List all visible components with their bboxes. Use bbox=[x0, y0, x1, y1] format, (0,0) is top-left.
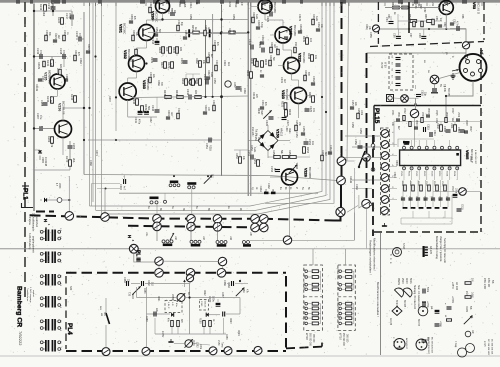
svg-text:gestrichelt: gestrichelt bbox=[35, 216, 38, 227]
W710 divider bbox=[338, 296, 355, 298]
capacitor C216 bbox=[51, 7, 56, 9]
coil L21 pins bbox=[169, 184, 172, 187]
svg-text:AB 178: AB 178 bbox=[429, 246, 432, 255]
svg-text:R522: R522 bbox=[423, 171, 425, 177]
svg-text:C151: C151 bbox=[247, 150, 250, 157]
wire C516 up bbox=[415, 85, 417, 89]
resistor R245 bbox=[165, 96, 172, 99]
svg-text:560 087: 560 087 bbox=[447, 88, 449, 97]
svg-text:950 090 000: 950 090 000 bbox=[342, 333, 344, 346]
svg-text:20: 20 bbox=[337, 301, 339, 303]
svg-text:470p: 470p bbox=[68, 13, 72, 19]
resistor R264 bbox=[185, 79, 188, 86]
screw PL3 bbox=[129, 244, 138, 253]
PL15 border bottom bbox=[374, 231, 481, 233]
svg-text:PL: PL bbox=[135, 250, 141, 256]
svg-text:BC238C: BC238C bbox=[123, 23, 127, 35]
switch S12 bbox=[358, 151, 365, 168]
PL4 top bus dash bbox=[66, 272, 286, 274]
IF bus wires right bbox=[347, 2, 349, 161]
legend pol cap bbox=[435, 310, 440, 313]
network W730 box bbox=[304, 265, 323, 330]
svg-text:100n: 100n bbox=[199, 344, 201, 350]
screw B2 bbox=[187, 222, 196, 231]
svg-text:BC 308,328,318: BC 308,328,318 bbox=[431, 337, 433, 354]
resistor R262 bbox=[199, 61, 202, 68]
resistor R244 bbox=[74, 96, 77, 103]
svg-text:100u: 100u bbox=[212, 296, 216, 302]
svg-text:S 517: S 517 bbox=[402, 243, 405, 250]
svg-text:R154: R154 bbox=[288, 150, 291, 156]
resistor R235 bbox=[312, 96, 315, 103]
svg-text:BC153: BC153 bbox=[417, 319, 419, 327]
svg-text:C210: C210 bbox=[234, 2, 237, 8]
svg-text:R56: R56 bbox=[417, 2, 420, 7]
svg-text:C228: C228 bbox=[257, 20, 260, 26]
wire base feeds bbox=[251, 6, 258, 8]
pin above DIN bbox=[464, 55, 467, 58]
transistor case TO92 bbox=[395, 288, 404, 297]
svg-text:C251: C251 bbox=[205, 143, 208, 149]
wire jack diagonal bbox=[439, 73, 460, 79]
polarized cap bar on rail 1 bbox=[188, 29, 190, 37]
svg-text:40: 40 bbox=[337, 275, 339, 277]
legend cap sym2 bbox=[423, 303, 425, 308]
svg-text:C547: C547 bbox=[445, 196, 447, 202]
svg-text:C215: C215 bbox=[184, 30, 187, 36]
svg-text:C533: C533 bbox=[441, 181, 443, 187]
shield bus x341 bold bbox=[341, 2, 343, 157]
transistor case round bbox=[418, 306, 428, 316]
svg-text:C501: C501 bbox=[391, 110, 393, 116]
wire y240 long bbox=[250, 239, 355, 241]
resistor R254 bbox=[193, 31, 200, 34]
wire rail x84 bbox=[83, 12, 85, 175]
capacitor C151 bbox=[251, 155, 253, 160]
svg-text:V226: V226 bbox=[304, 168, 308, 177]
capacitor C267 bbox=[40, 126, 42, 131]
svg-text:4n7: 4n7 bbox=[123, 186, 126, 191]
screw D1 bbox=[155, 269, 164, 278]
filter caps bbox=[396, 58, 401, 60]
capacitor under jack bbox=[432, 89, 437, 91]
svg-text:W710: W710 bbox=[339, 333, 343, 340]
svg-text:R161: R161 bbox=[259, 186, 262, 192]
screw H8 bbox=[283, 236, 291, 244]
PL15 border right bbox=[480, 48, 482, 232]
board border dash-dot left bbox=[24, 2, 26, 298]
svg-text:C150: C150 bbox=[254, 135, 257, 141]
svg-text:400V: 400V bbox=[405, 278, 408, 284]
svg-text:R153: R153 bbox=[306, 147, 309, 154]
svg-text:V220: V220 bbox=[269, 2, 273, 11]
capacitor C224 bbox=[251, 45, 253, 50]
svg-text:C163: C163 bbox=[355, 184, 358, 190]
svg-text:V223: V223 bbox=[281, 90, 285, 99]
legend resistor 05W bbox=[465, 296, 471, 299]
svg-text:R249: R249 bbox=[167, 110, 170, 116]
junction screw top bbox=[186, 275, 193, 282]
svg-text:DC 308 328 318: DC 308 328 318 bbox=[491, 339, 493, 355]
wire top row out bbox=[131, 283, 140, 285]
svg-text:40: 40 bbox=[337, 287, 339, 289]
tuning arrow bbox=[170, 233, 174, 240]
screw A4 bbox=[187, 215, 196, 224]
wire rail x34 bbox=[33, 4, 35, 211]
svg-text:R533: R533 bbox=[433, 181, 435, 187]
wire L32 drop bbox=[191, 189, 193, 215]
resistor R238 bbox=[136, 99, 139, 106]
svg-text:C161: C161 bbox=[329, 145, 332, 151]
svg-text:C157: C157 bbox=[351, 100, 354, 106]
osc box border bottom bbox=[370, 42, 484, 47]
svg-text:4n7: 4n7 bbox=[283, 79, 286, 84]
ground near connector bbox=[451, 73, 456, 79]
screw B1 bbox=[153, 222, 162, 231]
svg-text:S21: S21 bbox=[103, 312, 105, 317]
svg-text:C219: C219 bbox=[223, 60, 226, 66]
svg-text:C544: C544 bbox=[423, 196, 425, 202]
svg-text:R239: R239 bbox=[144, 104, 147, 111]
wire V53 emitter bbox=[445, 15, 447, 30]
transistor V226 bbox=[282, 169, 298, 185]
svg-text:R501: R501 bbox=[397, 112, 399, 118]
svg-text:R235: R235 bbox=[130, 14, 133, 20]
svg-text:R262: R262 bbox=[195, 58, 198, 64]
switch bus B bold dash bbox=[128, 226, 263, 228]
capacitor C180 bbox=[216, 303, 221, 306]
svg-text:C286: C286 bbox=[143, 288, 145, 294]
pin column wires bbox=[345, 135, 381, 137]
wire h334 bbox=[155, 333, 226, 335]
svg-text:L51: L51 bbox=[431, 2, 434, 7]
svg-text:R291: R291 bbox=[157, 296, 159, 302]
pot R189 bbox=[185, 340, 193, 348]
svg-text:C510: C510 bbox=[393, 172, 396, 178]
svg-text:R271: R271 bbox=[95, 150, 98, 156]
svg-text:20: 20 bbox=[303, 301, 305, 303]
nested wires PL1 right bbox=[92, 183, 121, 185]
svg-text:C158: C158 bbox=[351, 122, 354, 128]
svg-text:R234: R234 bbox=[288, 109, 291, 116]
screw A7 bbox=[260, 215, 269, 224]
svg-text:470u: 470u bbox=[138, 119, 140, 125]
wire row y97 bbox=[132, 96, 248, 98]
svg-text:1,8L,C: 1,8L,C bbox=[167, 302, 169, 309]
svg-text:C248: C248 bbox=[119, 184, 122, 190]
svg-text:R54: R54 bbox=[408, 14, 411, 19]
svg-text:L501: L501 bbox=[450, 123, 453, 129]
svg-text:1 GrO eingangs: 1 GrO eingangs bbox=[29, 287, 32, 303]
transistor V230 bbox=[156, 0, 170, 13]
svg-text:C289: C289 bbox=[225, 334, 227, 340]
wire rail x205 bbox=[205, 20, 207, 97]
svg-text:R159: R159 bbox=[359, 128, 362, 134]
fold crease upper bbox=[0, 248, 500, 250]
svg-text:R259: R259 bbox=[232, 14, 235, 20]
svg-text:R233: R233 bbox=[246, 70, 249, 77]
capacitor C225 bbox=[305, 109, 310, 111]
PL4 bottom bus dash bbox=[66, 350, 286, 352]
wire lower left bbox=[34, 169, 70, 171]
screw shield end bbox=[362, 199, 371, 208]
trimmer R240 bbox=[263, 110, 271, 118]
wire V222 to V223 bbox=[291, 74, 293, 81]
svg-text:festk: festk bbox=[253, 147, 256, 153]
wire nest 3 bbox=[102, 2, 331, 214]
resistor R56 bbox=[427, 20, 434, 23]
IC pin wires up bbox=[403, 140, 405, 147]
resistor R246 bbox=[177, 96, 184, 99]
svg-text:R502: R502 bbox=[436, 123, 439, 129]
shield bus segment 3 bbox=[340, 185, 342, 208]
svg-text:R264: R264 bbox=[181, 78, 184, 85]
svg-text:950 080 000: 950 080 000 bbox=[309, 333, 311, 346]
svg-text:C282: C282 bbox=[196, 342, 198, 348]
svg-text:R156: R156 bbox=[295, 163, 298, 170]
svg-text:250V: 250V bbox=[401, 278, 404, 284]
cap C518 bbox=[453, 194, 458, 197]
transistor V231 bbox=[139, 25, 155, 41]
legend resistor 1W bbox=[465, 282, 471, 285]
ground mid bbox=[404, 141, 409, 144]
svg-text:charge max. / potencia: charge max. / potencia bbox=[439, 236, 442, 262]
svg-text:C244: C244 bbox=[186, 89, 189, 96]
wire V230 leads bbox=[162, 13, 164, 20]
screw A1 bbox=[65, 212, 74, 221]
svg-text:40: 40 bbox=[303, 282, 305, 284]
screw E5 bbox=[254, 346, 262, 354]
svg-text:V150: V150 bbox=[276, 129, 280, 138]
capacitor C244 bbox=[189, 95, 191, 100]
svg-text:AC184,187: AC184,187 bbox=[405, 338, 408, 350]
capacitor C285L bbox=[154, 312, 156, 317]
svg-text:150: 150 bbox=[294, 42, 297, 47]
resistor R239b bbox=[306, 38, 309, 45]
svg-text:Bamberg CR: Bamberg CR bbox=[15, 286, 22, 327]
wire V236 emitter bbox=[62, 138, 64, 156]
svg-text:45kHz: 45kHz bbox=[397, 278, 400, 286]
shield bus segment 2 bbox=[341, 166, 343, 176]
svg-text:C180: C180 bbox=[208, 296, 212, 303]
wire bundle x116 bbox=[115, 3, 117, 131]
IC pin wires down bbox=[403, 166, 405, 180]
svg-text:C521: C521 bbox=[400, 171, 402, 177]
junction dots misc bbox=[88, 107, 90, 109]
resistor R187 bbox=[177, 321, 180, 327]
svg-text:C218: C218 bbox=[151, 38, 154, 45]
wire mid links bbox=[398, 20, 410, 22]
svg-text:R220: R220 bbox=[170, 8, 173, 14]
resistor R151 bbox=[257, 160, 260, 167]
wire V235 emitter bbox=[57, 89, 59, 96]
network W710 box bbox=[338, 265, 355, 330]
svg-text:C223: C223 bbox=[203, 74, 206, 81]
osc box border right bbox=[483, 2, 485, 40]
wire pin to DIN bbox=[465, 58, 467, 61]
resistor R227 bbox=[164, 62, 167, 69]
svg-text:560: 560 bbox=[147, 106, 150, 111]
wire L31 drop bbox=[156, 204, 158, 215]
wire screw to DIN bbox=[465, 49, 467, 55]
capacitor C227 bbox=[282, 118, 287, 120]
svg-text:R503: R503 bbox=[415, 120, 417, 126]
wire nest 4 bbox=[265, 2, 334, 203]
PL4 border left dash bbox=[65, 276, 67, 349]
corner mark bbox=[321, 343, 323, 347]
trim cap C515 bbox=[424, 127, 426, 132]
svg-text:47n: 47n bbox=[312, 108, 315, 113]
transformer T2 bbox=[40, 252, 60, 264]
svg-text:R184: R184 bbox=[242, 287, 245, 293]
trimmer R156 bbox=[289, 165, 297, 173]
svg-text:R521: R521 bbox=[408, 171, 410, 177]
jack X1 bbox=[401, 95, 409, 103]
svg-text:C513: C513 bbox=[457, 127, 460, 133]
capacitor C222 bbox=[262, 48, 264, 53]
svg-text:R269: R269 bbox=[47, 136, 51, 143]
svg-text:3 dB Anhebung: 3 dB Anhebung bbox=[28, 233, 31, 250]
resistor R230 bbox=[254, 59, 257, 66]
diode V265 bbox=[38, 150, 42, 153]
resistor R52 bbox=[402, 6, 409, 9]
resistor R250 bbox=[239, 157, 242, 164]
wire top cluster bbox=[440, 122, 442, 125]
transformer T4 bbox=[40, 296, 60, 308]
svg-text:R227: R227 bbox=[160, 62, 163, 69]
svg-text:C264: C264 bbox=[40, 100, 44, 107]
svg-text:40: 40 bbox=[337, 282, 339, 284]
divider dash x373 bbox=[372, 135, 374, 236]
capacitor C252 bbox=[236, 87, 241, 89]
resistor R257 bbox=[229, 31, 236, 34]
svg-text:C288: C288 bbox=[145, 316, 147, 322]
trim arrow S11 bbox=[204, 175, 212, 183]
arrow into connector bbox=[452, 70, 459, 72]
svg-text:R211: R211 bbox=[228, 2, 231, 8]
svg-text:4 049: 4 049 bbox=[443, 86, 445, 92]
resistor R269 bbox=[51, 137, 54, 144]
svg-text:T20: T20 bbox=[128, 292, 131, 297]
switch S21 bbox=[106, 313, 110, 324]
svg-text:BC163 D: BC163 D bbox=[477, 2, 481, 15]
capacitor C56 bbox=[396, 36, 401, 38]
svg-text:C217b: C217b bbox=[298, 14, 301, 22]
screw D3 bbox=[217, 269, 226, 278]
misc component marks left strip bbox=[45, 35, 48, 41]
decoder resistor row bbox=[404, 185, 407, 191]
svg-text:R258: R258 bbox=[189, 14, 192, 20]
svg-text:R509: R509 bbox=[395, 160, 398, 166]
screw contact S-knob bbox=[363, 154, 371, 162]
svg-text:C162: C162 bbox=[267, 183, 270, 189]
screw contact J1 bbox=[337, 157, 346, 166]
legend pot bbox=[464, 316, 472, 324]
svg-text:C153: C153 bbox=[270, 166, 273, 173]
svg-text:R508: R508 bbox=[465, 150, 467, 156]
screw E4 bbox=[224, 347, 232, 355]
svg-text:C216: C216 bbox=[47, 3, 51, 10]
svg-text:R53: R53 bbox=[387, 14, 390, 19]
wire y188 stub bbox=[352, 188, 372, 190]
diode V283 bbox=[206, 313, 209, 317]
capacitor C242 bbox=[144, 111, 149, 114]
bottom bus dash right bbox=[286, 347, 322, 349]
svg-text:S22: S22 bbox=[69, 286, 72, 291]
wire row y157 bbox=[268, 156, 274, 158]
svg-text:R266: R266 bbox=[157, 80, 160, 86]
svg-text:R256: R256 bbox=[228, 28, 231, 34]
coil wires bbox=[156, 223, 158, 241]
svg-text:BC238C: BC238C bbox=[155, 11, 159, 23]
screw B5 bbox=[260, 223, 269, 232]
PL1 border dash stub bbox=[36, 211, 54, 213]
svg-text:C268: C268 bbox=[89, 160, 92, 166]
coil L44 core bbox=[243, 244, 251, 247]
wire exit bottom bbox=[414, 207, 416, 241]
svg-text:22n: 22n bbox=[127, 279, 130, 284]
svg-text:H: H bbox=[127, 235, 132, 238]
screw B3 bbox=[213, 223, 222, 232]
junction to bus bbox=[68, 199, 70, 201]
border crossing arrow bbox=[414, 102, 417, 105]
svg-text:V266: V266 bbox=[58, 183, 60, 189]
resistor R229 bbox=[171, 62, 174, 69]
wire below screw bbox=[365, 208, 367, 248]
svg-text:20: 20 bbox=[337, 321, 339, 323]
svg-text:50,8: 50,8 bbox=[131, 294, 134, 299]
svg-text:4 049 560 087: 4 049 560 087 bbox=[474, 150, 476, 165]
svg-text:40: 40 bbox=[303, 287, 305, 289]
IC V505 body bbox=[400, 150, 461, 166]
svg-text:10W 1W: 10W 1W bbox=[487, 278, 490, 288]
svg-text:C509: C509 bbox=[469, 156, 471, 162]
svg-text:40: 40 bbox=[303, 269, 305, 271]
wire h297 bbox=[137, 297, 178, 299]
wire bridge leads bbox=[267, 125, 269, 131]
svg-text:8-30p: 8-30p bbox=[260, 22, 262, 29]
svg-text:L502: L502 bbox=[457, 112, 459, 118]
svg-text:15p: 15p bbox=[424, 92, 427, 97]
capacitor C251 bbox=[209, 138, 211, 143]
capacitor C283 bbox=[127, 281, 129, 286]
svg-text:Ratio: Ratio bbox=[288, 128, 291, 134]
svg-text:C523: C523 bbox=[430, 171, 432, 177]
svg-text:BC328: BC328 bbox=[403, 300, 405, 308]
svg-text:W 50: W 50 bbox=[384, 62, 387, 68]
wire V236 collector bbox=[62, 108, 64, 121]
wire top row osc bbox=[385, 7, 439, 9]
screw F1 bbox=[410, 109, 418, 117]
legend cap sym4 bbox=[422, 340, 427, 342]
wire drop x415 bbox=[415, 98, 417, 110]
svg-text:BC308B: BC308B bbox=[308, 167, 312, 178]
W710 rows group1 bbox=[339, 270, 342, 273]
screw D2 bbox=[186, 269, 195, 278]
transistor V235 bbox=[50, 74, 65, 89]
svg-text:100u/6: 100u/6 bbox=[204, 301, 206, 308]
svg-text:C53: C53 bbox=[435, 16, 438, 21]
svg-text:± Kap: ± Kap bbox=[454, 341, 457, 348]
transformer T3 bbox=[40, 274, 60, 286]
screw A3 bbox=[153, 214, 162, 223]
wire network feeds bbox=[312, 249, 314, 265]
svg-text:R245: R245 bbox=[163, 90, 166, 97]
svg-text:100k: 100k bbox=[360, 110, 362, 116]
svg-text:080 000: 080 000 bbox=[312, 334, 314, 343]
svg-text:1N4148: 1N4148 bbox=[44, 157, 48, 167]
svg-text:C156: C156 bbox=[354, 139, 357, 145]
